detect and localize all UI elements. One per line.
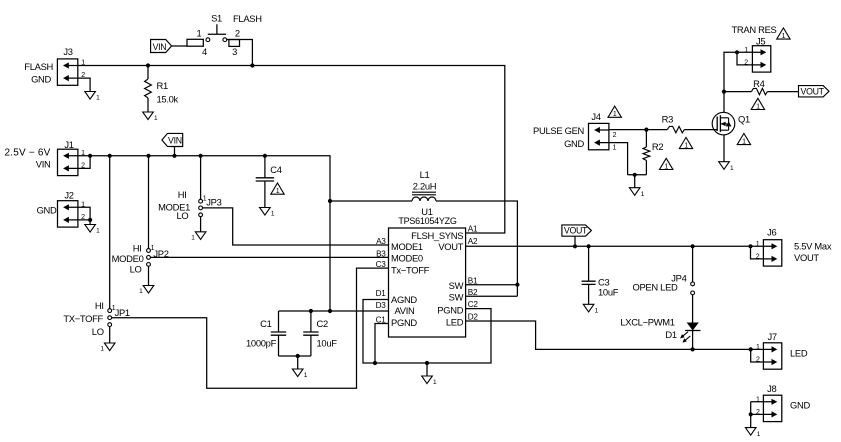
svg-text:MODE0: MODE0 [391, 252, 423, 263]
svg-text:2.2uH: 2.2uH [413, 180, 437, 191]
svg-text:2: 2 [81, 214, 85, 221]
svg-text:1: 1 [756, 103, 760, 110]
svg-text:VIN: VIN [36, 158, 51, 169]
svg-text:Tx−TOFF: Tx−TOFF [391, 264, 430, 275]
svg-text:LXCL−PWM1: LXCL−PWM1 [620, 317, 674, 328]
svg-text:HI: HI [178, 189, 187, 200]
svg-text:J5: J5 [756, 35, 765, 46]
svg-text:FLASH: FLASH [24, 61, 53, 72]
svg-text:4: 4 [202, 46, 207, 57]
svg-text:5.5V Max: 5.5V Max [794, 240, 832, 251]
svg-text:R1: R1 [157, 80, 168, 91]
svg-text:D1: D1 [665, 329, 676, 340]
svg-text:LO: LO [92, 326, 104, 337]
svg-text:1: 1 [756, 397, 760, 404]
svg-text:A1: A1 [468, 225, 478, 234]
svg-text:J7: J7 [767, 331, 776, 342]
svg-text:2: 2 [81, 162, 85, 169]
svg-text:LO: LO [130, 263, 142, 274]
svg-text:R3: R3 [662, 113, 673, 124]
svg-text:J4: J4 [591, 111, 600, 122]
svg-text:2: 2 [81, 72, 85, 79]
svg-text:15.0k: 15.0k [157, 94, 179, 105]
svg-text:R4: R4 [753, 78, 764, 89]
svg-text:LED: LED [446, 317, 464, 328]
svg-text:C1: C1 [260, 318, 271, 329]
svg-text:2.5V − 6V: 2.5V − 6V [5, 147, 51, 158]
svg-text:J6: J6 [767, 226, 776, 237]
svg-text:AGND: AGND [391, 294, 417, 305]
svg-text:D3: D3 [376, 301, 387, 310]
svg-text:1: 1 [684, 142, 688, 149]
svg-text:B2: B2 [468, 288, 478, 297]
svg-text:C3: C3 [376, 260, 387, 269]
svg-text:JP3: JP3 [206, 197, 221, 208]
svg-text:2: 2 [756, 409, 760, 416]
svg-text:C4: C4 [270, 164, 281, 175]
svg-text:C1: C1 [376, 315, 387, 324]
svg-text:1: 1 [664, 163, 668, 170]
svg-text:R2: R2 [652, 141, 663, 152]
svg-text:Q1: Q1 [738, 113, 750, 124]
svg-text:10uF: 10uF [598, 286, 619, 297]
svg-text:1: 1 [744, 47, 748, 54]
svg-text:HI: HI [95, 300, 104, 311]
svg-text:B3: B3 [376, 249, 386, 258]
svg-text:VOUT: VOUT [564, 226, 588, 236]
svg-text:10uF: 10uF [317, 338, 338, 349]
svg-text:1000pF: 1000pF [246, 338, 277, 349]
svg-text:VOUT: VOUT [794, 252, 819, 263]
svg-text:S1: S1 [211, 13, 222, 24]
svg-text:L1: L1 [420, 169, 430, 180]
svg-text:AVIN: AVIN [395, 305, 415, 316]
svg-text:OPEN LED: OPEN LED [632, 282, 678, 293]
svg-text:1: 1 [81, 202, 85, 209]
svg-text:J2: J2 [64, 189, 73, 200]
svg-text:C2: C2 [317, 318, 328, 329]
svg-text:1: 1 [276, 188, 280, 195]
svg-text:1: 1 [782, 33, 786, 40]
svg-text:A2: A2 [468, 237, 478, 246]
svg-text:LO: LO [176, 210, 188, 221]
svg-text:HI: HI [133, 242, 142, 253]
svg-text:2: 2 [744, 60, 748, 67]
svg-text:FLASH: FLASH [233, 13, 262, 24]
svg-text:PGND: PGND [437, 305, 463, 316]
svg-text:TX−TOFF: TX−TOFF [63, 313, 103, 324]
svg-text:1: 1 [756, 344, 760, 351]
svg-text:PGND: PGND [391, 317, 417, 328]
svg-text:1: 1 [742, 138, 746, 145]
svg-text:MODE1: MODE1 [391, 241, 423, 252]
svg-text:GND: GND [31, 74, 51, 85]
svg-text:SW: SW [449, 280, 464, 291]
svg-text:J1: J1 [64, 139, 73, 150]
svg-text:SW: SW [449, 292, 464, 303]
svg-text:VOUT: VOUT [801, 86, 825, 96]
svg-text:1: 1 [756, 241, 760, 248]
svg-text:TPS61054YZG: TPS61054YZG [398, 216, 457, 226]
svg-text:VIN: VIN [153, 42, 167, 52]
svg-text:LED: LED [790, 348, 808, 359]
svg-text:GND: GND [790, 400, 810, 411]
svg-text:D1: D1 [376, 289, 387, 298]
svg-text:2: 2 [235, 27, 240, 38]
svg-text:D2: D2 [468, 313, 479, 322]
svg-text:2: 2 [756, 254, 760, 261]
svg-text:1: 1 [81, 59, 85, 66]
svg-text:1: 1 [197, 27, 202, 38]
svg-text:2: 2 [756, 357, 760, 364]
svg-text:VOUT: VOUT [438, 241, 463, 252]
svg-text:FLSH_SYNS: FLSH_SYNS [411, 230, 463, 241]
svg-text:C2: C2 [468, 300, 479, 309]
svg-text:1: 1 [613, 111, 617, 118]
svg-text:VIN: VIN [168, 136, 182, 146]
svg-text:GND: GND [564, 138, 584, 149]
svg-text:TRAN RES: TRAN RES [732, 24, 777, 35]
svg-text:2: 2 [613, 132, 617, 139]
svg-text:1: 1 [613, 144, 617, 151]
svg-text:1: 1 [81, 150, 85, 157]
svg-text:JP1: JP1 [115, 307, 130, 318]
svg-text:GND: GND [37, 205, 57, 216]
svg-text:JP2: JP2 [153, 248, 168, 259]
svg-text:3: 3 [232, 46, 237, 57]
svg-text:J3: J3 [63, 46, 72, 57]
svg-text:PULSE GEN: PULSE GEN [533, 125, 584, 136]
svg-text:J8: J8 [767, 383, 776, 394]
svg-text:A3: A3 [376, 237, 386, 246]
svg-text:B1: B1 [468, 276, 478, 285]
